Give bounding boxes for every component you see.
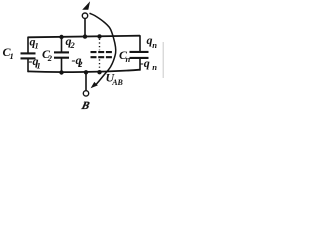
svg-text:1: 1	[10, 51, 14, 61]
svg-text:-q: -q	[140, 56, 150, 70]
svg-text:AB: AB	[111, 78, 123, 87]
svg-text:2: 2	[77, 59, 83, 69]
svg-text:1: 1	[37, 60, 41, 70]
svg-text:n: n	[152, 62, 157, 72]
svg-text:2: 2	[47, 53, 53, 63]
svg-text:B: B	[79, 100, 91, 112]
svg-text:1: 1	[35, 40, 39, 50]
svg-text:n: n	[126, 54, 131, 64]
svg-text:2: 2	[70, 40, 76, 50]
svg-text:n: n	[152, 40, 157, 50]
